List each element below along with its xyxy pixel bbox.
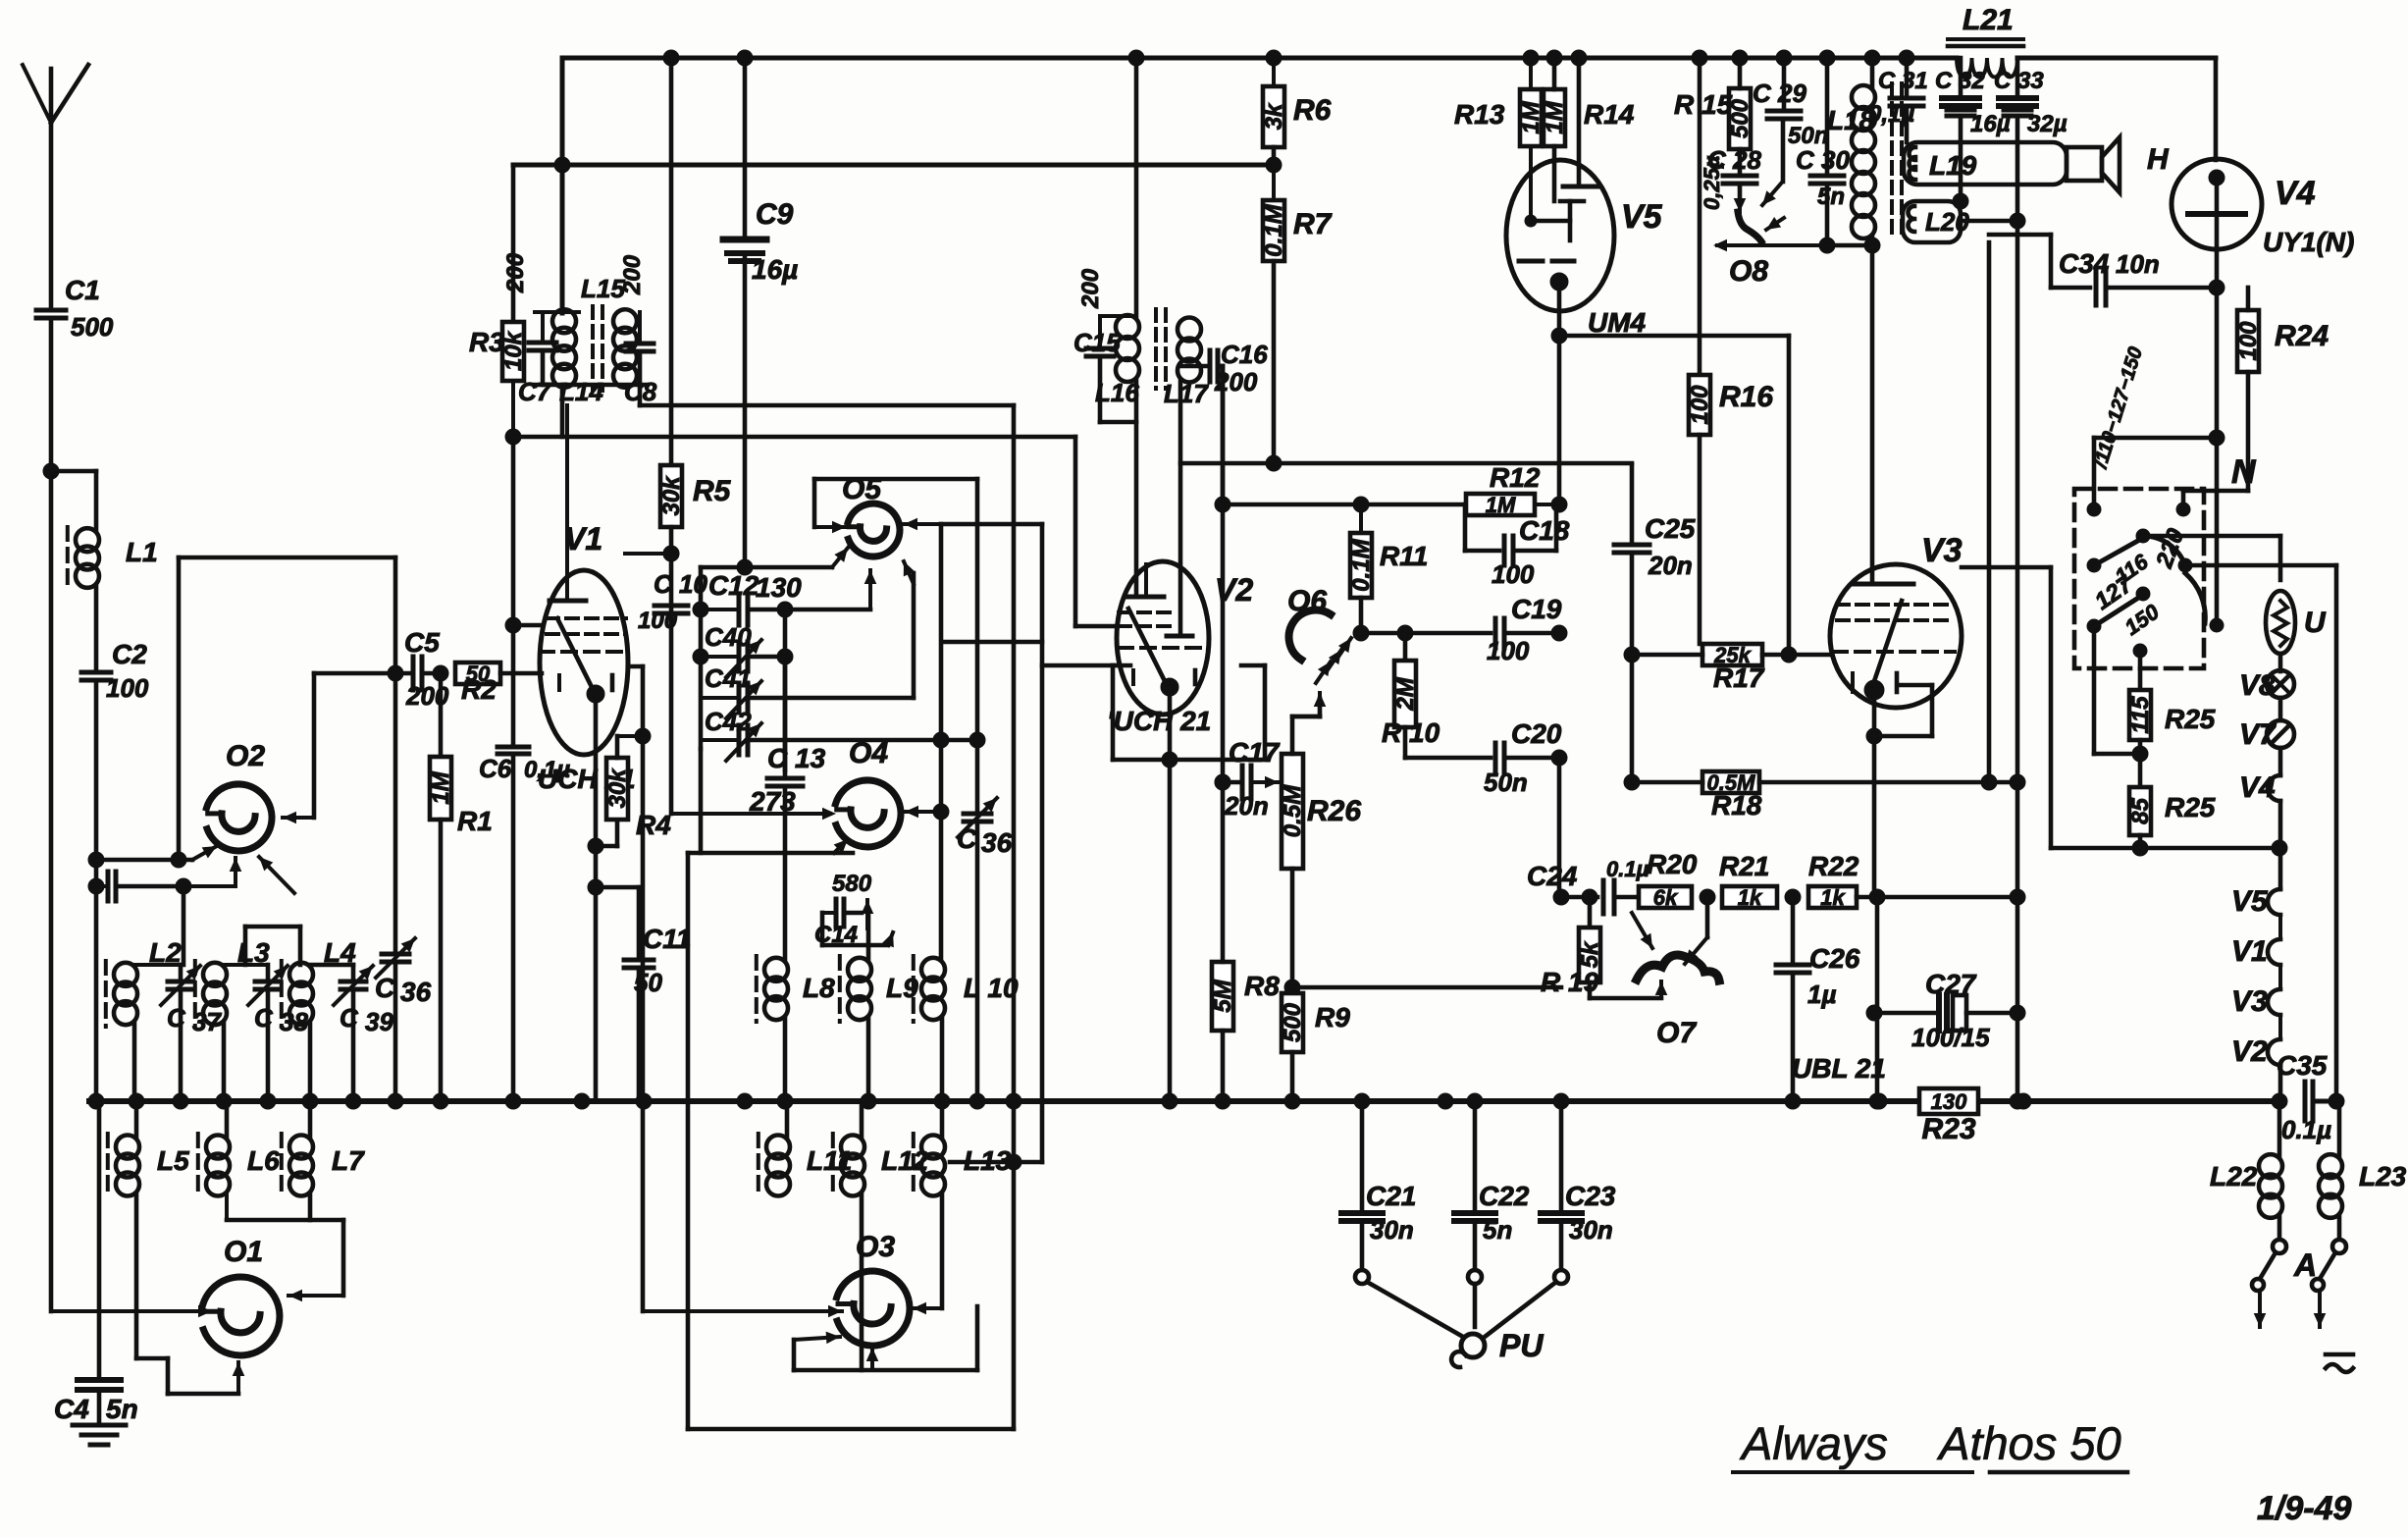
svg-text:O1: O1 xyxy=(224,1236,263,1268)
svg-text:0,1µ: 0,1µ xyxy=(1868,101,1914,128)
svg-text:C 33: C 33 xyxy=(1994,68,2044,94)
svg-text:C22: C22 xyxy=(1479,1181,1530,1211)
svg-text:L22: L22 xyxy=(2210,1161,2258,1192)
svg-text:H: H xyxy=(2147,143,2170,176)
svg-text:L16: L16 xyxy=(1095,378,1139,407)
svg-text:85: 85 xyxy=(2127,798,2154,824)
svg-text:100: 100 xyxy=(2235,321,2262,361)
svg-text:R2: R2 xyxy=(461,674,497,705)
svg-text:3k: 3k xyxy=(1261,102,1287,130)
svg-text:6k: 6k xyxy=(1653,885,1679,910)
svg-text:R22: R22 xyxy=(1808,851,1859,881)
svg-text:36: 36 xyxy=(981,827,1013,858)
svg-text:500: 500 xyxy=(1280,1002,1306,1042)
svg-text:C 13: C 13 xyxy=(767,743,826,773)
svg-text:V5: V5 xyxy=(2231,885,2269,918)
svg-text:R23: R23 xyxy=(1921,1113,1975,1145)
svg-text:0.1µ: 0.1µ xyxy=(1606,857,1649,881)
svg-text:37: 37 xyxy=(192,1007,222,1036)
svg-text:C21: C21 xyxy=(1366,1181,1416,1211)
svg-text:C: C xyxy=(254,1003,274,1033)
svg-text:C4: C4 xyxy=(54,1394,89,1424)
svg-text:39: 39 xyxy=(365,1007,393,1036)
svg-text:V3: V3 xyxy=(2231,985,2268,1018)
svg-text:5n: 5n xyxy=(1483,1215,1512,1245)
svg-text:10k: 10k xyxy=(500,330,527,371)
svg-text:1M: 1M xyxy=(428,770,454,804)
svg-text:L1: L1 xyxy=(126,537,158,567)
svg-text:50: 50 xyxy=(634,968,662,997)
svg-text:R25: R25 xyxy=(2165,704,2216,734)
svg-text:0.1M: 0.1M xyxy=(1261,203,1287,256)
svg-text:C 29: C 29 xyxy=(1753,79,1806,108)
svg-text:0.5M: 0.5M xyxy=(1280,784,1306,837)
svg-text:R7: R7 xyxy=(1293,208,1333,240)
svg-text:R4: R4 xyxy=(636,810,671,840)
svg-text:R11: R11 xyxy=(1380,541,1428,571)
svg-text:0,25µ: 0,25µ xyxy=(1700,155,1724,210)
svg-text:R1: R1 xyxy=(457,806,493,836)
svg-text:L19: L19 xyxy=(1929,150,1977,181)
svg-text:L 10: L 10 xyxy=(964,973,1019,1003)
svg-text:20n: 20n xyxy=(1648,551,1693,580)
svg-text:100: 100 xyxy=(1687,385,1713,425)
svg-text:36: 36 xyxy=(400,977,432,1007)
svg-text:1M: 1M xyxy=(1518,100,1544,133)
svg-text:L14: L14 xyxy=(559,377,603,406)
svg-text:0.1M: 0.1M xyxy=(1348,538,1375,591)
svg-text:V5: V5 xyxy=(1621,198,1663,236)
svg-text:0.1µ: 0.1µ xyxy=(2281,1115,2331,1144)
svg-text:30n: 30n xyxy=(1370,1215,1414,1245)
svg-text:C25: C25 xyxy=(1645,513,1696,544)
svg-text:O2: O2 xyxy=(226,740,265,772)
svg-text:30n: 30n xyxy=(1569,1215,1613,1245)
svg-text:C6: C6 xyxy=(479,754,512,783)
svg-text:Always Athos 50: Always Athos 50 xyxy=(1739,1417,2121,1469)
svg-text:PU: PU xyxy=(1499,1328,1544,1363)
svg-text:O8: O8 xyxy=(1729,255,1768,288)
svg-text:C17: C17 xyxy=(1229,737,1281,768)
svg-text:L8: L8 xyxy=(803,973,835,1003)
svg-text:C41: C41 xyxy=(705,663,752,693)
svg-text:R5: R5 xyxy=(693,475,732,507)
svg-text:C11: C11 xyxy=(643,924,691,954)
svg-text:R14: R14 xyxy=(1584,99,1635,130)
svg-text:100/15: 100/15 xyxy=(1911,1023,1990,1052)
svg-text:V8: V8 xyxy=(2239,669,2276,702)
svg-text:R 10: R 10 xyxy=(1382,717,1440,748)
svg-text:C26: C26 xyxy=(1809,943,1860,974)
svg-text:200: 200 xyxy=(502,252,529,293)
svg-text:100: 100 xyxy=(1487,636,1530,665)
svg-text:L7: L7 xyxy=(332,1145,365,1176)
svg-text:U: U xyxy=(2304,607,2327,639)
svg-text:1/9-49: 1/9-49 xyxy=(2257,1490,2351,1527)
svg-text:V1: V1 xyxy=(2231,935,2268,968)
svg-text:L17: L17 xyxy=(1164,379,1209,408)
svg-text:5M: 5M xyxy=(1210,979,1236,1012)
svg-text:V2: V2 xyxy=(2231,1035,2268,1068)
svg-text:V3: V3 xyxy=(1921,532,1963,569)
svg-text:C14: C14 xyxy=(814,922,858,948)
svg-text:1k: 1k xyxy=(1738,885,1763,910)
svg-text:C19: C19 xyxy=(1511,594,1562,624)
svg-text:C 32: C 32 xyxy=(1935,68,1985,94)
svg-text:A: A xyxy=(2293,1247,2317,1283)
svg-text:C20: C20 xyxy=(1511,718,1562,749)
svg-text:1k: 1k xyxy=(1820,885,1846,910)
svg-text:R17: R17 xyxy=(1713,662,1765,693)
svg-text:R8: R8 xyxy=(1244,971,1280,1001)
svg-text:C16: C16 xyxy=(1221,340,1268,369)
svg-text:UY1(N): UY1(N) xyxy=(2263,227,2354,257)
svg-text:R16: R16 xyxy=(1719,381,1773,413)
svg-text:10n: 10n xyxy=(2116,249,2160,279)
svg-text:R21: R21 xyxy=(1719,851,1769,881)
svg-text:130: 130 xyxy=(756,572,802,603)
svg-text:580: 580 xyxy=(832,871,872,897)
svg-text:C1: C1 xyxy=(65,275,100,305)
svg-text:R6: R6 xyxy=(1293,94,1332,127)
svg-text:5n: 5n xyxy=(106,1394,138,1424)
svg-text:C40: C40 xyxy=(705,622,752,652)
svg-text:O7: O7 xyxy=(1656,1017,1697,1049)
svg-text:C18: C18 xyxy=(1519,515,1570,546)
svg-text:30k: 30k xyxy=(658,475,685,516)
svg-text:C 31: C 31 xyxy=(1878,68,1928,94)
svg-text:C: C xyxy=(167,1003,186,1033)
svg-text:5n: 5n xyxy=(1817,184,1845,210)
svg-text:N: N xyxy=(2231,453,2257,491)
svg-text:1µ: 1µ xyxy=(1807,980,1836,1009)
svg-text:C42: C42 xyxy=(705,707,752,736)
svg-text:273: 273 xyxy=(749,786,796,817)
svg-text:V4: V4 xyxy=(2275,175,2316,212)
svg-text:38: 38 xyxy=(280,1007,308,1036)
svg-text:L5: L5 xyxy=(157,1145,189,1176)
svg-text:L23: L23 xyxy=(2359,1161,2407,1192)
svg-text:R13: R13 xyxy=(1454,99,1505,130)
svg-text:R24: R24 xyxy=(2275,320,2329,352)
svg-text:20n: 20n xyxy=(1224,791,1269,821)
svg-text:200: 200 xyxy=(619,254,646,295)
svg-text:R26: R26 xyxy=(1307,795,1361,827)
svg-text:C35: C35 xyxy=(2277,1050,2328,1081)
svg-text:C34: C34 xyxy=(2059,248,2110,279)
svg-text:C: C xyxy=(340,1003,359,1033)
svg-text:32µ: 32µ xyxy=(2027,111,2068,137)
svg-text:C12: C12 xyxy=(708,570,759,601)
svg-text:V4: V4 xyxy=(2239,771,2276,804)
svg-text:R25: R25 xyxy=(2165,792,2216,822)
svg-text:5k: 5k xyxy=(1577,940,1603,968)
svg-text:C 30: C 30 xyxy=(1796,145,1850,175)
svg-text:L6: L6 xyxy=(247,1145,280,1176)
svg-text:115: 115 xyxy=(2127,696,2154,734)
svg-text:O6: O6 xyxy=(1287,585,1327,617)
svg-text:16µ: 16µ xyxy=(752,254,798,285)
svg-text:R12: R12 xyxy=(1490,462,1541,493)
svg-text:C24: C24 xyxy=(1527,861,1578,891)
svg-text:R20: R20 xyxy=(1647,849,1698,879)
svg-text:100: 100 xyxy=(1492,559,1535,589)
svg-text:'UCH 21: 'UCH 21 xyxy=(1107,706,1211,736)
svg-text:C9: C9 xyxy=(756,198,794,231)
svg-text:C15: C15 xyxy=(1073,328,1121,357)
svg-text:C: C xyxy=(957,823,977,854)
svg-text:100: 100 xyxy=(106,673,149,703)
svg-text:C23: C23 xyxy=(1565,1181,1616,1211)
svg-text:C5: C5 xyxy=(404,627,440,658)
svg-text:UBL 21: UBL 21 xyxy=(1792,1053,1886,1084)
svg-text:1M: 1M xyxy=(1486,493,1516,517)
svg-text:L21: L21 xyxy=(1963,4,2014,36)
svg-text:130: 130 xyxy=(1931,1089,1967,1114)
svg-text:50n: 50n xyxy=(1484,768,1528,797)
svg-text:O4: O4 xyxy=(849,737,888,769)
svg-text:V1: V1 xyxy=(564,521,602,556)
svg-text:C7: C7 xyxy=(518,377,552,406)
svg-text:C: C xyxy=(375,973,395,1003)
svg-text:500: 500 xyxy=(71,312,114,342)
svg-text:2M: 2M xyxy=(1392,676,1419,711)
svg-text:200: 200 xyxy=(1077,268,1104,309)
svg-text:30k: 30k xyxy=(604,768,631,809)
svg-text:V7: V7 xyxy=(2239,718,2277,751)
svg-text:R 15: R 15 xyxy=(1674,89,1733,120)
svg-text:1M: 1M xyxy=(1542,100,1568,133)
svg-text:C27: C27 xyxy=(1925,969,1977,999)
svg-text:R18: R18 xyxy=(1711,790,1762,821)
svg-text:R3: R3 xyxy=(469,327,504,357)
svg-text:C2: C2 xyxy=(112,639,147,669)
svg-text:UM4: UM4 xyxy=(1588,307,1647,338)
svg-text:R9: R9 xyxy=(1315,1002,1350,1033)
